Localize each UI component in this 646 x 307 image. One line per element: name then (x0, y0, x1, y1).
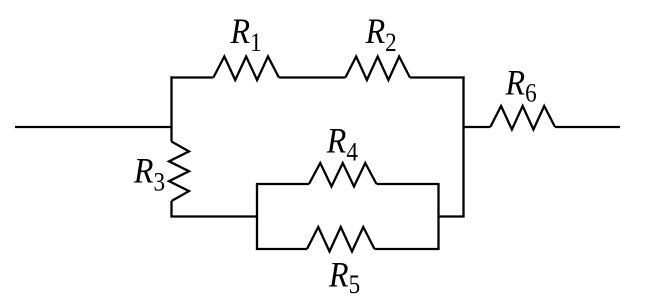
resistor R2 (345, 57, 410, 81)
wire top rail segment 2 (279, 76, 346, 78)
wire right lead (555, 126, 620, 128)
wire box top rail right segment (377, 183, 440, 185)
svg-text:R5: R5 (328, 256, 360, 299)
label R3 (133, 152, 165, 197)
svg-text:R3: R3 (133, 152, 165, 197)
wire box bottom rail right segment (375, 248, 440, 250)
wire left lead (15, 126, 172, 128)
wire left vertical upper (node A to R3) (170, 76, 172, 141)
label R2 (365, 12, 397, 57)
wire parallel box right vertical (437, 184, 439, 249)
label R1 (230, 12, 262, 57)
resistor R6 (490, 106, 555, 130)
resistor R1 (213, 57, 279, 81)
svg-text:R6: R6 (505, 64, 537, 108)
resistor R3 (169, 142, 189, 202)
label R5 (328, 256, 360, 299)
resistor R4 (309, 163, 377, 187)
svg-text:R2: R2 (365, 12, 397, 57)
wire left vertical lower (R3 to bottom rail) (170, 201, 172, 217)
resistor R5 (307, 227, 375, 252)
wire bottom middle right (437, 215, 464, 217)
wire right vertical (462, 76, 464, 216)
wire parallel box left vertical (256, 184, 258, 249)
svg-text:R4: R4 (326, 122, 358, 167)
wire bottom middle left (170, 215, 258, 217)
wire box bottom rail left segment (256, 248, 307, 250)
wire top rail segment 1 (170, 76, 213, 78)
label R6 (505, 64, 537, 108)
wire box top rail left segment (256, 183, 309, 185)
wire top rail segment 3 (410, 76, 465, 78)
svg-text:R1: R1 (230, 12, 262, 57)
label R4 (326, 122, 358, 167)
wire R6 left lead (464, 126, 491, 128)
